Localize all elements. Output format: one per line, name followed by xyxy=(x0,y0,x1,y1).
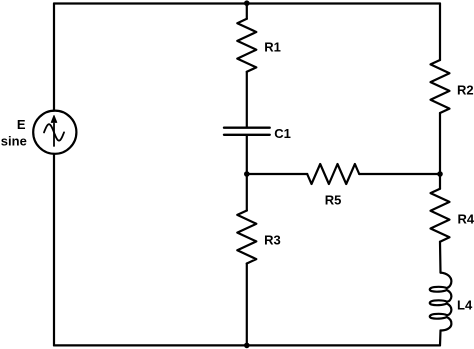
wire: R2 to right node xyxy=(439,113,441,174)
inductor L4 xyxy=(430,273,452,331)
wire: left rail top (source top to top rail) xyxy=(53,4,55,111)
svg-text:L4: L4 xyxy=(457,298,473,313)
junction: bottom node xyxy=(244,343,250,349)
svg-text:C1: C1 xyxy=(274,126,291,141)
resistor R5 xyxy=(307,164,359,184)
svg-text:R2: R2 xyxy=(457,82,474,97)
junction: middle node xyxy=(244,171,250,177)
svg-text:E: E xyxy=(17,117,26,132)
resistor R2 xyxy=(431,60,450,113)
wire: R1 to C1 xyxy=(246,72,248,127)
wire: top rail to R1 xyxy=(246,4,248,19)
svg-text:R5: R5 xyxy=(325,193,342,208)
junction: top node xyxy=(244,0,250,6)
svg-text:R4: R4 xyxy=(458,212,474,227)
wire: C1 to middle node xyxy=(246,136,248,174)
svg-text:R1: R1 xyxy=(264,39,281,54)
wire: left rail bottom (source bottom to bottom rail) xyxy=(53,154,55,346)
wire: bottom rail xyxy=(54,344,440,346)
wire: top rail xyxy=(54,2,440,4)
resistor R4 xyxy=(431,189,450,242)
wire: R4 to L4 xyxy=(439,242,442,273)
wire: middle node to R3 xyxy=(246,174,248,211)
svg-text:R3: R3 xyxy=(264,233,281,248)
wire: R3 to bottom node xyxy=(246,264,248,346)
wire: middle node to R5 xyxy=(247,173,307,175)
capacitor C1 xyxy=(224,128,270,135)
wire: top rail to R2 xyxy=(439,4,441,61)
svg-text:sine: sine xyxy=(1,134,27,149)
resistor R1 xyxy=(237,19,256,72)
wire: L4 to bottom rail xyxy=(439,331,442,346)
wire: right node to R4 xyxy=(439,174,441,189)
resistor R3 xyxy=(237,211,256,264)
junction: right node xyxy=(437,171,443,177)
voltage source E (sine source) xyxy=(33,111,76,154)
wire: R5 to right node xyxy=(359,173,440,175)
